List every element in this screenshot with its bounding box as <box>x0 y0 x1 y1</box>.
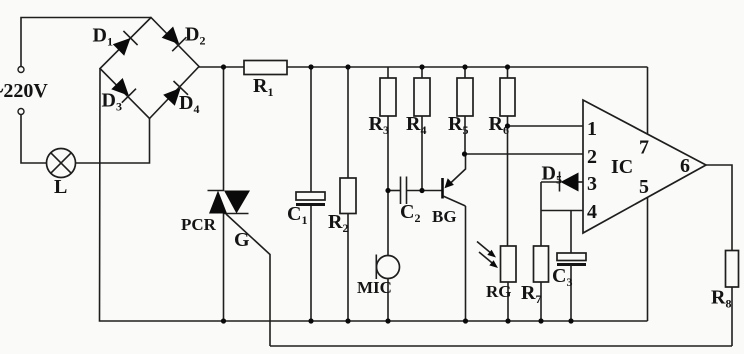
svg-text:C1: C1 <box>287 203 307 227</box>
wire emitter node to IC pin 2 <box>465 153 584 155</box>
svg-text:3: 3 <box>587 173 597 195</box>
svg-text:D1: D1 <box>93 25 113 49</box>
svg-text:7: 7 <box>639 137 649 159</box>
capacitor C3 <box>552 211 586 322</box>
diode D5 <box>541 163 583 192</box>
svg-text:RG: RG <box>486 282 512 301</box>
op-amp IC triangle <box>583 100 706 233</box>
svg-text:R2: R2 <box>328 211 348 235</box>
wire MIC branch <box>387 191 389 322</box>
resistor R5 <box>448 78 473 137</box>
wire lamp to bridge bottom corner <box>76 119 150 164</box>
wire R5 branch <box>464 67 466 154</box>
svg-text:6: 6 <box>680 155 690 177</box>
diode D2 <box>162 24 206 52</box>
wire PCR branch <box>223 67 225 321</box>
svg-text:R7: R7 <box>521 282 541 306</box>
svg-text:C3: C3 <box>552 265 572 289</box>
wire pin 6 tip to R8 <box>706 165 732 251</box>
svg-text:D2: D2 <box>185 24 205 48</box>
svg-text:D3: D3 <box>102 90 122 114</box>
microphone MIC <box>357 255 400 298</box>
wire C1 branch <box>310 67 312 321</box>
svg-text:PCR: PCR <box>181 215 217 234</box>
photoresistor RG <box>486 246 516 301</box>
terminal bottom <box>18 109 24 115</box>
wire RG branch <box>507 126 510 321</box>
node dots top rail <box>221 64 226 69</box>
svg-text:1: 1 <box>587 118 597 140</box>
svg-text:D5: D5 <box>542 163 562 187</box>
svg-text:2: 2 <box>587 146 597 168</box>
capacitor C1 <box>287 192 325 227</box>
wire bridge left corner down and bottom rail 1 <box>100 69 648 322</box>
capacitor C2 <box>400 177 420 226</box>
svg-text:~220V: ~220V <box>0 80 48 102</box>
wire top positive rail <box>199 66 648 68</box>
svg-text:G: G <box>234 229 250 251</box>
wire R6 branch <box>507 67 509 126</box>
resistor R4 <box>406 78 430 137</box>
resistor R8 <box>711 251 739 347</box>
wire pin 7 to top rail <box>647 67 649 134</box>
wire IC pin 4 line <box>541 210 583 212</box>
lamp L <box>47 149 76 199</box>
svg-text:R1: R1 <box>253 75 273 99</box>
svg-text:MIC: MIC <box>357 278 392 297</box>
light arrows <box>477 242 498 269</box>
diode D4 <box>163 81 199 116</box>
svg-text:R8: R8 <box>711 287 731 311</box>
wire pin 5 down to bottom rail 1 <box>647 198 649 322</box>
wire junction R3 to C2 <box>388 190 401 192</box>
resistor R6 <box>489 78 516 137</box>
node dot R4/base <box>419 188 424 193</box>
thyristor PCR (triac) <box>181 191 250 235</box>
node dot R3/C2/MIC <box>385 188 390 193</box>
wire R4 branch <box>421 67 423 191</box>
diode D1 <box>93 25 138 56</box>
wire bottom terminal down to lamp <box>21 115 47 164</box>
wire top terminal to bridge top corner <box>21 18 151 67</box>
wire R3 branch <box>387 67 389 191</box>
node dot R5/collector/pin2 <box>462 151 467 156</box>
terminal top <box>18 67 24 73</box>
wire collector down <box>465 206 467 321</box>
node dots bottom rail 1 <box>221 318 226 323</box>
svg-text:IC: IC <box>611 156 633 178</box>
svg-text:C2: C2 <box>400 201 420 225</box>
wire bottom rail 2 <box>270 345 732 347</box>
wire R6 node to IC pin 1 <box>508 125 584 127</box>
node dot R6/pin1/RG <box>505 123 510 128</box>
svg-text:BG: BG <box>432 207 457 226</box>
resistor R1 <box>244 61 287 100</box>
wire R2 branch <box>347 67 349 321</box>
wire D5 cathode down to R7 <box>540 182 542 246</box>
svg-text:L: L <box>54 176 67 198</box>
bridge diamond wires <box>100 18 199 119</box>
resistor R7 <box>521 246 549 321</box>
wire gate G down to bottom rail 2 <box>226 214 270 346</box>
resistor R3 <box>369 78 397 137</box>
diode D3 <box>102 78 137 114</box>
svg-text:4: 4 <box>587 201 597 223</box>
svg-text:D4: D4 <box>179 92 199 116</box>
transistor BG <box>432 154 466 226</box>
wire C2 to BG base <box>407 190 444 192</box>
resistor R2 <box>328 178 356 235</box>
svg-text:5: 5 <box>639 176 649 198</box>
